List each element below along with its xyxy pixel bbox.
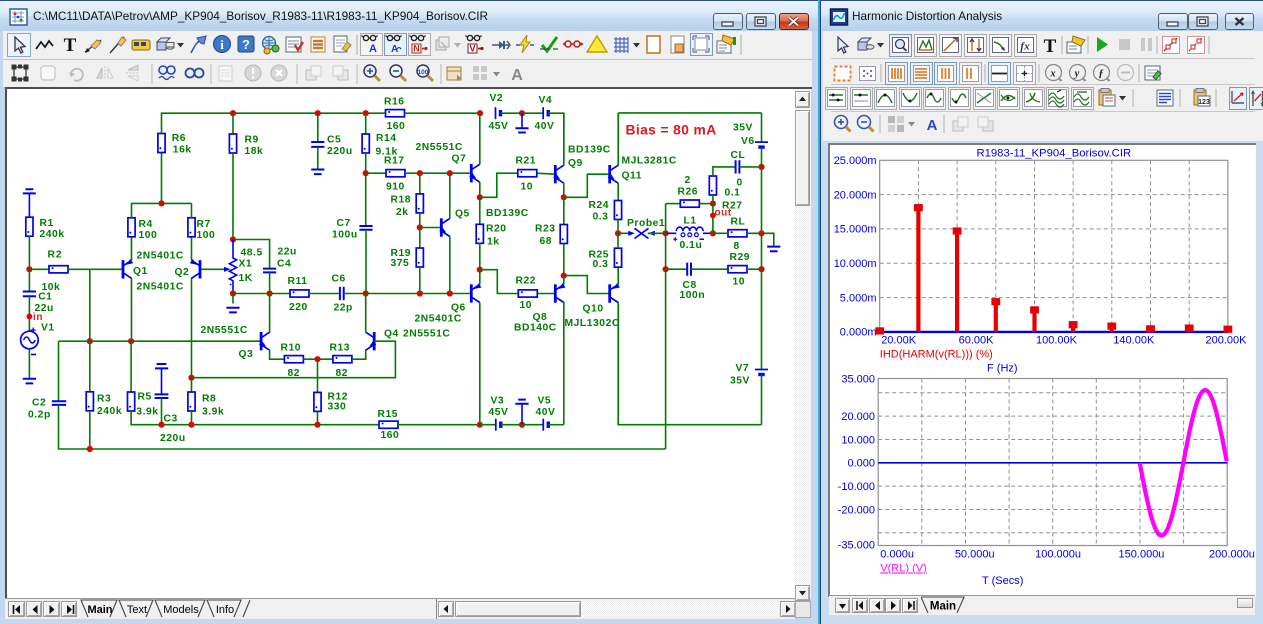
svg-text:10: 10 bbox=[520, 300, 533, 311]
svg-text:-20.000: -20.000 bbox=[838, 504, 875, 516]
resistor R27 bbox=[709, 176, 716, 195]
svg-text:R9: R9 bbox=[245, 135, 259, 146]
resistor R1 bbox=[26, 217, 33, 236]
wire V6 top bbox=[761, 113, 763, 142]
battery V5 bbox=[543, 419, 548, 431]
svg-text:C7: C7 bbox=[337, 218, 351, 229]
wire Q10 collector to V7 rail bbox=[618, 302, 761, 425]
svg-text:R26: R26 bbox=[678, 187, 699, 198]
wire to R5 bbox=[130, 341, 132, 392]
wire R17 to Q7 base bbox=[405, 172, 470, 174]
wire Q9 emitter bbox=[563, 183, 565, 197]
wire Q2 emitter to R7 bbox=[191, 237, 193, 261]
node Q6 collector/V3 bbox=[477, 422, 483, 428]
resistor R20 bbox=[476, 224, 483, 243]
svg-text:150.000u: 150.000u bbox=[1119, 549, 1165, 561]
svg-text:R13: R13 bbox=[330, 343, 351, 354]
node R8/negative rail bbox=[188, 422, 194, 428]
wire R2 to Q1 base node bbox=[68, 268, 90, 270]
wire Q8 collector down bbox=[563, 302, 565, 425]
wire R18 to Q5 base bbox=[419, 213, 421, 228]
svg-text:100u: 100u bbox=[332, 230, 358, 241]
svg-text:8: 8 bbox=[734, 241, 740, 252]
svg-text:ƒ: ƒ bbox=[1098, 69, 1103, 80]
node C5/top rail bbox=[315, 110, 321, 116]
svg-text:C3: C3 bbox=[164, 414, 178, 425]
svg-text:0.2p: 0.2p bbox=[28, 410, 51, 421]
svg-text:Q10: Q10 bbox=[583, 304, 604, 315]
svg-text:T (Secs): T (Secs) bbox=[982, 575, 1023, 587]
svg-text:C1: C1 bbox=[38, 292, 52, 303]
wire R15 to V3 bbox=[398, 424, 480, 426]
node R3/bottom rail bbox=[87, 446, 93, 452]
wire R26 branch down bbox=[665, 204, 667, 234]
capacitor C3 bbox=[155, 394, 169, 398]
wire to R2 bbox=[29, 268, 49, 270]
capacitor C5 bbox=[311, 142, 324, 147]
resistor R7 bbox=[188, 218, 195, 237]
ground above C3 bbox=[155, 364, 168, 394]
wire to R14 bbox=[365, 113, 367, 134]
wire Q5 collector up bbox=[449, 173, 451, 219]
svg-text:C6: C6 bbox=[332, 274, 346, 285]
wire output to probe bbox=[618, 232, 631, 234]
node R10/R13/R12 bbox=[314, 356, 320, 362]
wire to C8 bbox=[666, 268, 688, 270]
wire Q10 emitter to R25 bbox=[617, 267, 619, 285]
node Q7 emitter/R20 bbox=[477, 194, 483, 200]
wire R14 to R17 node bbox=[365, 153, 367, 173]
svg-text:R11: R11 bbox=[288, 276, 308, 287]
node R14/R17/C7 bbox=[363, 170, 369, 176]
transistor Q5 bbox=[439, 218, 450, 236]
svg-text:R27: R27 bbox=[722, 201, 743, 212]
node CL/V6 bbox=[758, 164, 764, 170]
svg-text:V(RL) (V): V(RL) (V) bbox=[880, 563, 926, 575]
svg-text:2N5551C: 2N5551C bbox=[416, 142, 463, 153]
svg-text:Q3: Q3 bbox=[239, 349, 254, 360]
node R12/negative rail bbox=[314, 422, 320, 428]
wire CL right bbox=[739, 166, 761, 168]
capacitor C8 bbox=[687, 263, 691, 276]
svg-text:Q11: Q11 bbox=[622, 171, 643, 182]
wire Q7 collector up bbox=[479, 113, 481, 164]
source V1 bbox=[21, 328, 39, 355]
node C3/negative rail bbox=[158, 422, 164, 428]
wire to Q5 base bbox=[420, 227, 442, 229]
resistor R22 bbox=[518, 290, 537, 297]
wire R25 top bbox=[617, 233, 619, 248]
wire to C5 bbox=[317, 113, 319, 142]
svg-text:0.1u: 0.1u bbox=[680, 240, 703, 251]
svg-text:MJL1302C: MJL1302C bbox=[565, 318, 620, 329]
svg-text:140.00K: 140.00K bbox=[1113, 335, 1155, 347]
svg-text:R24: R24 bbox=[589, 200, 610, 211]
svg-text:2k: 2k bbox=[396, 207, 409, 218]
wire R20 to Q6 node bbox=[479, 243, 481, 269]
svg-text:910: 910 bbox=[386, 182, 405, 193]
svg-text:10: 10 bbox=[521, 182, 534, 193]
svg-text:20.000: 20.000 bbox=[841, 411, 875, 423]
node X1 top/C4 bbox=[230, 236, 236, 242]
transistor Q7 bbox=[469, 164, 480, 182]
svg-text:48.5: 48.5 bbox=[241, 248, 263, 259]
transistor Q11 bbox=[608, 165, 619, 183]
capacitor CL bbox=[736, 160, 740, 173]
svg-text:20.00K: 20.00K bbox=[881, 335, 917, 347]
svg-text:R2: R2 bbox=[48, 250, 63, 261]
node Q5 emitter bbox=[447, 290, 453, 296]
svg-text:y: y bbox=[1073, 69, 1080, 80]
svg-text:R22: R22 bbox=[516, 276, 537, 287]
svg-text:BD139C: BD139C bbox=[568, 145, 611, 156]
node R29 right bbox=[758, 266, 764, 272]
svg-text:60.00K: 60.00K bbox=[959, 335, 995, 347]
wire V5 to Q8 collector corner bbox=[548, 424, 564, 426]
wire node to R12 bbox=[317, 359, 319, 392]
svg-text:R4: R4 bbox=[139, 219, 153, 230]
svg-text:C4: C4 bbox=[277, 259, 291, 270]
wire to R20 bbox=[479, 197, 481, 224]
wire Q9 collector bbox=[563, 113, 565, 165]
svg-text:330: 330 bbox=[328, 402, 347, 413]
svg-text:2N5551C: 2N5551C bbox=[201, 325, 248, 336]
RIGHT WINDOW: Harmonic Distortion Analysis plots bbox=[820, 0, 1263, 624]
wire C5 to ground bbox=[317, 147, 319, 169]
svg-text:A: A bbox=[927, 117, 938, 134]
wire C4 bottom bbox=[269, 272, 271, 293]
svg-text:16k: 16k bbox=[173, 145, 192, 156]
node Q7 collector/V2 bbox=[477, 110, 483, 116]
transistor Q1 bbox=[123, 259, 133, 279]
svg-text:MJL3281C: MJL3281C bbox=[622, 156, 677, 167]
wire to C7 bbox=[365, 173, 367, 226]
wire node to out bbox=[712, 204, 714, 234]
svg-text:1K: 1K bbox=[239, 273, 253, 284]
battery V4 bbox=[543, 107, 548, 119]
svg-text:-10.000: -10.000 bbox=[838, 481, 875, 493]
resistor R13 bbox=[333, 356, 352, 363]
svg-text:R21: R21 bbox=[516, 156, 537, 167]
svg-text:Q2: Q2 bbox=[175, 267, 190, 278]
wire Q2 base to X1 wiper bbox=[201, 268, 227, 270]
wire L1 node down bbox=[665, 233, 667, 269]
svg-text:X1: X1 bbox=[239, 259, 253, 270]
node in bbox=[27, 314, 33, 320]
svg-text:68: 68 bbox=[540, 236, 553, 247]
wire to R26 bbox=[666, 203, 681, 205]
svg-text:Text: Text bbox=[127, 604, 147, 616]
svg-text:T: T bbox=[64, 35, 77, 56]
wire to R19 bbox=[419, 228, 421, 249]
svg-text:R18: R18 bbox=[391, 195, 412, 206]
inductor L1 bbox=[666, 227, 713, 241]
svg-text:Q9: Q9 bbox=[568, 158, 583, 169]
wire bottom ground rail bbox=[59, 405, 666, 449]
resistor R15 bbox=[379, 421, 398, 428]
capacitor C4 bbox=[263, 269, 276, 273]
svg-text:i: i bbox=[220, 37, 224, 52]
svg-text:2: 2 bbox=[685, 175, 691, 186]
wire RL to ground bbox=[747, 233, 774, 246]
ground at V3/V5 bbox=[515, 400, 528, 425]
svg-text:R14: R14 bbox=[376, 133, 397, 144]
svg-text:Q5: Q5 bbox=[455, 209, 470, 220]
node Q5 collector bbox=[447, 170, 453, 176]
wire R29 right bbox=[747, 268, 762, 270]
wire feedback rail to Q3 base bbox=[59, 340, 262, 342]
transistor Q10 bbox=[610, 283, 620, 303]
wire Q11 emitter to R24 bbox=[617, 183, 619, 201]
svg-text:2N5401C: 2N5401C bbox=[137, 282, 184, 293]
wire R24 to output node bbox=[617, 220, 619, 234]
svg-text:Probe1: Probe1 bbox=[627, 218, 665, 229]
svg-text:160: 160 bbox=[387, 121, 406, 132]
node C6/C7/Q4 collector bbox=[363, 290, 369, 296]
transistor Q6 bbox=[471, 283, 481, 303]
svg-text:V2: V2 bbox=[490, 93, 504, 104]
resistor R8 bbox=[188, 392, 195, 411]
svg-text:10.000: 10.000 bbox=[841, 434, 875, 446]
wire Q6 collector down bbox=[479, 303, 481, 425]
wire Q4 base to Q2 collector bbox=[192, 341, 396, 378]
wire R1 bottom to node bbox=[28, 236, 30, 269]
wire to R18 bbox=[419, 173, 421, 194]
wire to R9 bbox=[232, 113, 234, 134]
svg-text:35V: 35V bbox=[730, 376, 750, 387]
node output/R24/R25 bbox=[615, 230, 621, 236]
svg-text:18k: 18k bbox=[245, 146, 264, 157]
svg-text:0.000u: 0.000u bbox=[880, 549, 914, 561]
wire output box top bbox=[618, 112, 761, 114]
svg-text:0.3: 0.3 bbox=[593, 212, 609, 223]
capacitor C2 bbox=[52, 401, 66, 405]
wire to R3 bbox=[89, 341, 91, 391]
svg-text:R15: R15 bbox=[378, 409, 399, 420]
ground below V1 bbox=[23, 379, 36, 384]
node V2/V4/ground bbox=[519, 110, 525, 116]
wire to V4 bbox=[522, 112, 543, 114]
svg-text:Models: Models bbox=[163, 604, 199, 616]
svg-text:220u: 220u bbox=[160, 433, 186, 444]
wire to R17 bbox=[366, 172, 386, 174]
svg-text:-35.000: -35.000 bbox=[838, 540, 875, 552]
transistor Q4 bbox=[366, 332, 377, 350]
wire R7 top bbox=[191, 203, 193, 217]
resistor R9 bbox=[229, 134, 236, 153]
capacitor C7 bbox=[359, 226, 372, 230]
wire to R21 bbox=[480, 173, 518, 197]
wire Q1 collector down bbox=[131, 278, 133, 341]
svg-text:200.000u: 200.000u bbox=[1209, 549, 1255, 561]
node out/L1/RL bbox=[710, 230, 716, 236]
svg-text:R29: R29 bbox=[730, 252, 751, 263]
svg-text:in: in bbox=[33, 312, 43, 323]
wire R10 to R13 bbox=[303, 358, 333, 360]
svg-text:100: 100 bbox=[197, 230, 216, 241]
battery V6 bbox=[755, 142, 768, 147]
svg-text:R10: R10 bbox=[281, 343, 302, 354]
resistor R4 bbox=[128, 218, 135, 237]
resistor R26 bbox=[680, 200, 699, 207]
svg-text:35.000: 35.000 bbox=[841, 374, 875, 386]
node R1/R2/C1 junction bbox=[26, 266, 32, 272]
node R26/R27 bbox=[710, 201, 716, 207]
svg-text:45V: 45V bbox=[489, 407, 509, 418]
svg-text:1k: 1k bbox=[487, 237, 500, 248]
wire right column bbox=[761, 147, 763, 369]
wire to C4 bbox=[233, 240, 270, 269]
resistor R16 bbox=[386, 110, 405, 117]
svg-text:V1: V1 bbox=[41, 323, 55, 334]
svg-text:V3: V3 bbox=[491, 396, 505, 407]
svg-text:R1983-11_KP904_Borisov.CIR: R1983-11_KP904_Borisov.CIR bbox=[976, 148, 1131, 160]
wire C8 to R29 bbox=[691, 268, 728, 270]
probe bowtie bbox=[628, 231, 635, 236]
svg-text:220u: 220u bbox=[327, 146, 353, 157]
wire V2 to ground node bbox=[501, 112, 523, 114]
svg-text:0.3: 0.3 bbox=[593, 259, 609, 270]
wire to Q3 collector bbox=[269, 294, 271, 333]
wire R8 to negative rail bbox=[191, 411, 193, 425]
svg-text:R8: R8 bbox=[202, 394, 216, 405]
svg-text:CL: CL bbox=[731, 150, 746, 161]
svg-text:15.000m: 15.000m bbox=[834, 224, 877, 236]
wire R21 to Q9 base bbox=[537, 173, 556, 174]
svg-text:50.000u: 50.000u bbox=[955, 549, 995, 561]
svg-text:123: 123 bbox=[1198, 99, 1210, 106]
svg-text:Info: Info bbox=[216, 604, 234, 616]
svg-text:IHD(HARM(v(RL))) (%): IHD(HARM(v(RL))) (%) bbox=[880, 349, 993, 361]
wire R13 to Q4 emitter bbox=[352, 350, 366, 359]
wire node to feedback rail bbox=[89, 269, 91, 341]
svg-text:BD140C: BD140C bbox=[514, 323, 557, 334]
svg-text:C2: C2 bbox=[32, 398, 46, 409]
battery V2 bbox=[496, 107, 501, 119]
wire to Q6 base bbox=[366, 293, 472, 295]
svg-text:Q8: Q8 bbox=[533, 312, 548, 323]
ground at RL bbox=[767, 247, 780, 252]
svg-text:N: N bbox=[413, 44, 420, 54]
svg-text:RL: RL bbox=[731, 217, 746, 228]
svg-text:0: 0 bbox=[737, 178, 743, 189]
node L1 left bbox=[663, 230, 669, 236]
wire Q1 emitter to R4 bbox=[131, 237, 133, 261]
transistor Q8 bbox=[555, 283, 565, 303]
node R20/Q6 emitter bbox=[477, 267, 483, 273]
wire Q5 emitter down bbox=[449, 236, 451, 293]
battery V3 bbox=[496, 419, 501, 431]
wire to Q1 base bbox=[90, 268, 122, 270]
node C8 left bbox=[663, 266, 669, 272]
svg-text:R17: R17 bbox=[384, 156, 405, 167]
svg-text:A: A bbox=[511, 67, 523, 84]
svg-text:A: A bbox=[391, 44, 398, 55]
node R18 top bbox=[417, 170, 423, 176]
wire to bottom rail bbox=[665, 269, 667, 449]
node C4/R11/Q3 collector bbox=[267, 290, 273, 296]
svg-text:V4: V4 bbox=[539, 95, 553, 106]
resistor R25 bbox=[614, 248, 621, 267]
wire R23 to Q8 node bbox=[563, 244, 565, 276]
capacitor C6 bbox=[340, 287, 344, 300]
node R23/Q8 emitter bbox=[561, 273, 567, 279]
resistor R19 bbox=[416, 248, 423, 267]
node RL right bbox=[758, 230, 764, 236]
svg-text:240k: 240k bbox=[97, 406, 122, 417]
resistor R10 bbox=[284, 356, 303, 363]
wire Q11 collector to top bbox=[617, 113, 619, 166]
svg-text:22u: 22u bbox=[278, 247, 297, 258]
svg-text:22p: 22p bbox=[334, 303, 353, 314]
wire R12 to negative rail bbox=[317, 411, 319, 424]
ground at V2/V4 bbox=[515, 113, 528, 132]
transistor Q3 bbox=[259, 332, 270, 350]
svg-text:Bias = 80 mA: Bias = 80 mA bbox=[626, 123, 717, 138]
wire R26 to R27 bbox=[699, 203, 713, 205]
resistor R18 bbox=[416, 194, 423, 213]
wire X1 to ground bbox=[232, 294, 234, 304]
wire to C2 bbox=[58, 341, 60, 401]
svg-text:10: 10 bbox=[733, 277, 746, 288]
svg-text:10.000m: 10.000m bbox=[834, 258, 877, 270]
svg-text:R6: R6 bbox=[172, 133, 186, 144]
ground below X1 bbox=[226, 308, 239, 313]
wire R19 to rail bbox=[419, 267, 421, 294]
resistor R2 bbox=[49, 266, 68, 273]
transistor Q9 bbox=[553, 165, 564, 183]
wire Q2 collector down bbox=[191, 278, 193, 378]
wire Q8 to Q10 base bbox=[564, 276, 610, 294]
wire R4/R7 top rail bbox=[132, 203, 192, 217]
node R6 bottom bbox=[158, 200, 164, 206]
wire C7 to rail bbox=[365, 230, 367, 294]
wire probe to L1 node bbox=[648, 232, 666, 234]
wire V4 to Q9 collector bbox=[548, 113, 564, 165]
svg-text:35V: 35V bbox=[733, 123, 753, 134]
svg-text:R23: R23 bbox=[535, 224, 556, 235]
svg-text:V5: V5 bbox=[538, 396, 552, 407]
node Q2 collector/R8/Q4 base line bbox=[188, 375, 194, 381]
resistor R6 bbox=[158, 134, 165, 153]
wire R16 to V2 bbox=[405, 112, 481, 114]
capacitor C1 bbox=[23, 292, 36, 297]
svg-text:5.000m: 5.000m bbox=[840, 292, 877, 304]
svg-text:100: 100 bbox=[139, 230, 158, 241]
svg-text:3.9k: 3.9k bbox=[136, 407, 158, 418]
wire R3 to bottom rail bbox=[89, 411, 91, 449]
resistor R11 bbox=[290, 290, 309, 297]
wire L1 node to RL bbox=[713, 232, 728, 234]
svg-text:220: 220 bbox=[289, 302, 308, 313]
transistor Q2 bbox=[190, 259, 200, 279]
LEFT WINDOW: Micro-Cap schematic editor bbox=[0, 0, 819, 624]
svg-text:0.1: 0.1 bbox=[725, 188, 741, 199]
svg-text:R7: R7 bbox=[197, 219, 211, 230]
resistor R24 bbox=[614, 201, 621, 220]
wire C3 to negative rail bbox=[161, 398, 163, 425]
svg-text:x: x bbox=[1049, 69, 1055, 80]
svg-text:V: V bbox=[469, 44, 475, 54]
resistor R23 bbox=[560, 225, 567, 244]
resistor R21 bbox=[518, 170, 537, 177]
svg-text:200.00K: 200.00K bbox=[1206, 335, 1248, 347]
node R19 bottom bbox=[417, 290, 423, 296]
svg-text:45V: 45V bbox=[489, 121, 509, 132]
resistor R17 bbox=[386, 170, 405, 177]
wire Q9 to Q11 base bbox=[564, 174, 610, 197]
ground above R1 bbox=[23, 189, 36, 217]
